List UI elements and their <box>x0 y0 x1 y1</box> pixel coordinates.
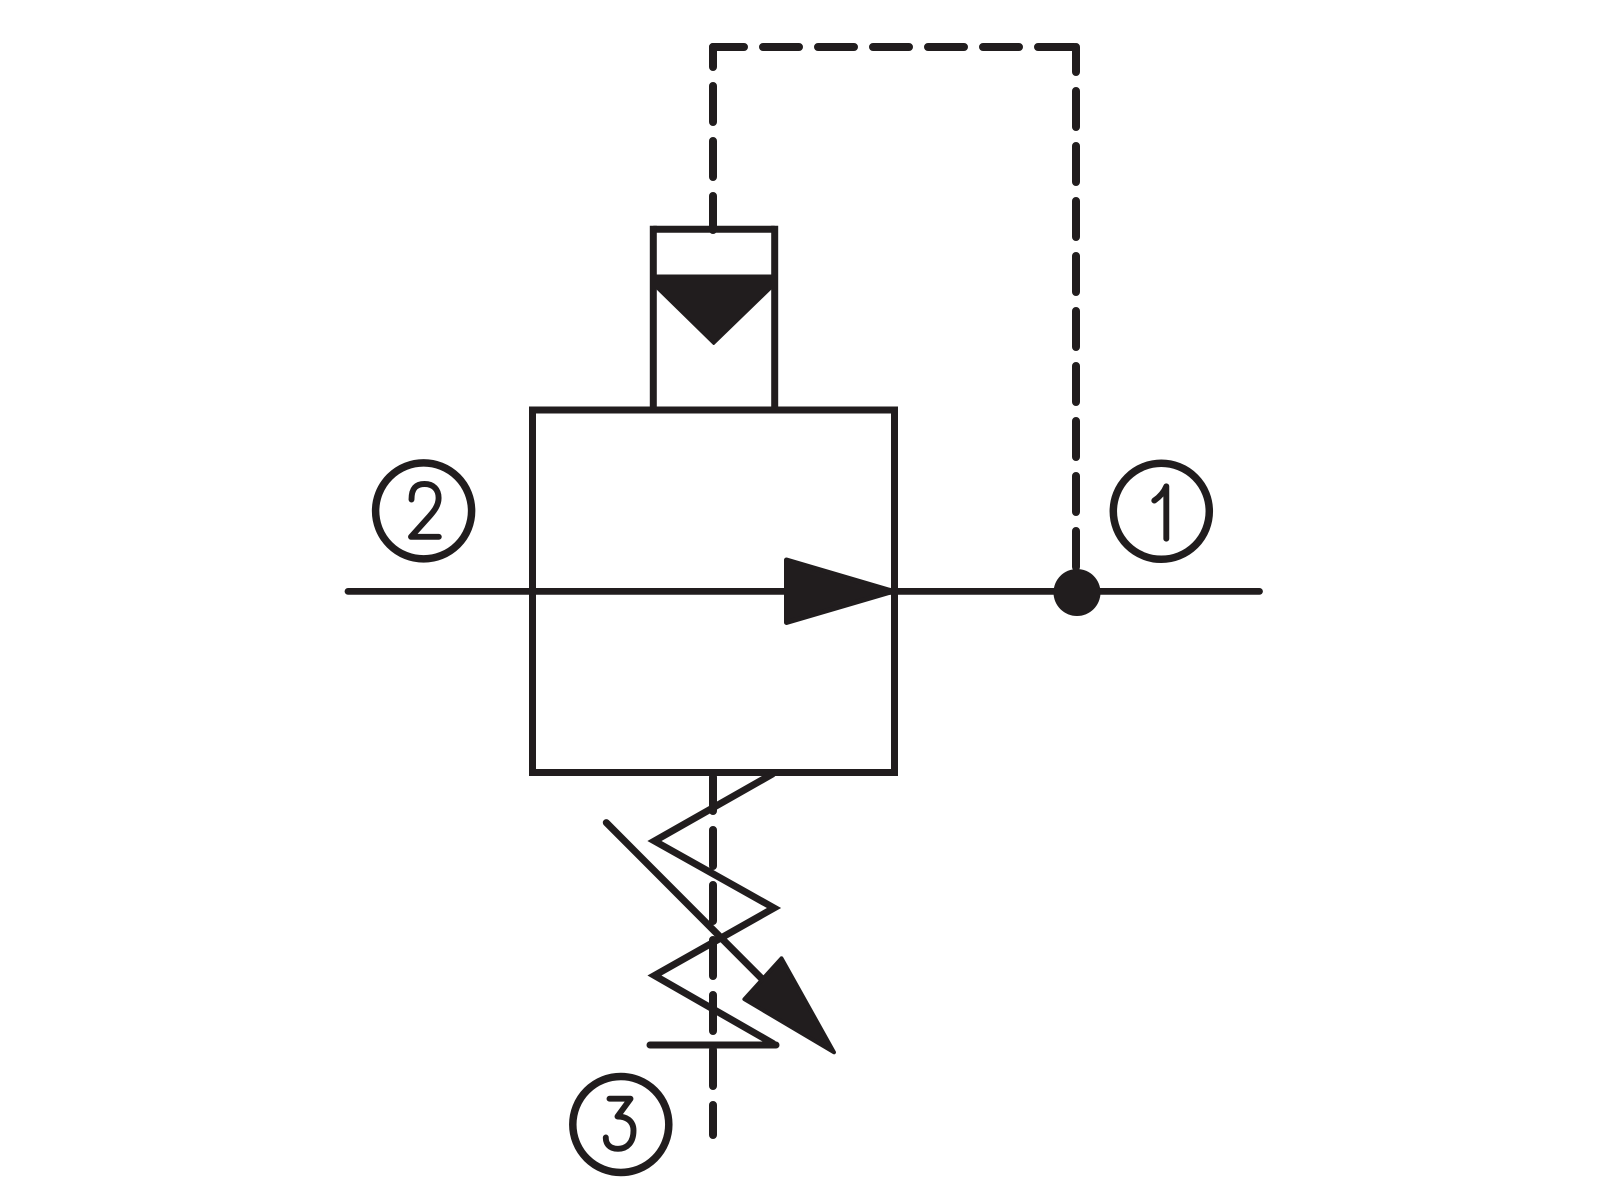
digit 1 <box>1154 486 1166 538</box>
spring seat bar <box>650 1042 776 1049</box>
poppet (filled seat triangle) <box>657 276 772 345</box>
node (junction dot at port 1 pilot tap) <box>1054 569 1101 616</box>
spring <box>655 774 775 1044</box>
port 2 label circle <box>376 463 472 559</box>
digit 2 <box>411 484 439 537</box>
port 1 label circle <box>1113 463 1209 559</box>
digit 3 <box>606 1099 634 1149</box>
flow arrow inside body <box>787 560 894 623</box>
adjustment arrow shaft <box>606 823 793 1010</box>
adjustment arrow head <box>744 958 834 1052</box>
valve body box <box>533 410 895 773</box>
port 3 label circle <box>573 1077 669 1173</box>
pilot dashed line: right vertical segment to node <box>1072 47 1080 592</box>
poppet box (pilot stage rectangle) <box>653 226 774 414</box>
drain dashed line below body to port 3 <box>709 777 717 1135</box>
main flow line (port 2 to port 1) <box>348 588 1260 595</box>
pilot dashed line: vertical segment above poppet <box>709 47 717 230</box>
pilot dashed line: top horizontal segment <box>713 43 1076 51</box>
